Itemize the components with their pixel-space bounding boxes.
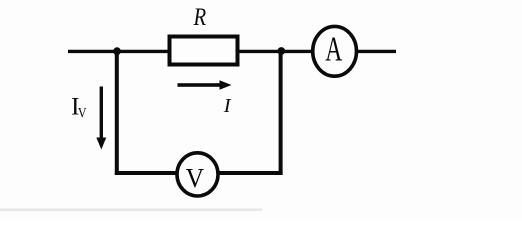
wire: right lead of ammeter [358,50,397,53]
svg-text:A: A [325,31,343,68]
scan streak [0,209,262,211]
svg-text:V: V [186,162,204,193]
current arrow Iv (downward) [96,87,106,150]
ammeter A [313,26,357,76]
wire: resistor to ammeter [240,50,313,53]
node junction right [277,47,285,55]
wire: bottom-left segment to voltmeter [115,171,177,175]
svg-text:I: I [223,95,232,117]
current label Iv [71,91,87,121]
voltmeter V [177,153,218,196]
wire: top-left segment (left lead to resistor) [68,50,168,53]
current arrow I (rightward) [178,80,232,89]
svg-text:R: R [193,3,207,30]
node junction left [113,47,121,55]
wire: right vertical branch [279,51,283,175]
wire: left vertical branch to voltmeter [115,51,119,175]
resistor R [170,37,238,65]
wire: bottom-right segment from voltmeter [219,171,283,175]
svg-text:V: V [78,104,87,121]
